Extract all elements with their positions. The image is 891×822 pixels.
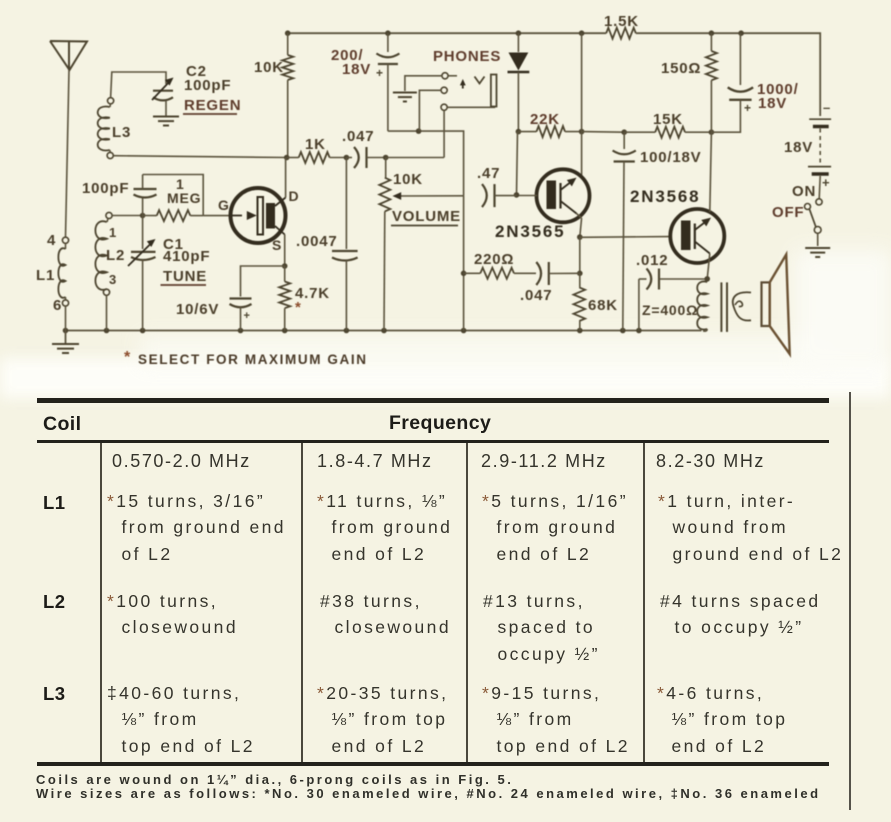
svg-text:MEG: MEG [167,190,201,206]
svg-text:10/6V: 10/6V [176,301,219,318]
svg-text:100/18V: 100/18V [640,149,701,166]
svg-text:L1: L1 [36,267,55,284]
svg-text:+: + [244,310,250,322]
svg-text:.012: .012 [636,252,668,269]
svg-text:100pF: 100pF [184,77,231,94]
svg-text:PHONES: PHONES [433,48,501,65]
svg-text:D: D [289,188,300,204]
svg-text:–: – [823,100,831,115]
svg-text:.047: .047 [342,128,374,145]
svg-text:15K: 15K [653,111,683,128]
svg-text:G: G [218,197,230,213]
svg-text:+: + [822,175,830,190]
svg-text:150Ω: 150Ω [661,60,701,77]
svg-text:REGEN: REGEN [184,97,241,114]
svg-text:100pF: 100pF [82,180,129,197]
svg-text:1: 1 [109,225,117,240]
svg-text:.047: .047 [520,287,552,304]
svg-text:68K: 68K [588,297,618,314]
svg-text:S: S [272,237,282,253]
svg-text:OFF: OFF [772,204,804,221]
svg-text:22K: 22K [530,111,560,128]
svg-text:18V: 18V [758,95,787,112]
svg-text:220Ω: 220Ω [474,251,514,268]
svg-text:4: 4 [47,232,56,249]
svg-text:410pF: 410pF [163,248,210,265]
svg-text:+: + [744,101,751,115]
svg-text:.47: .47 [477,165,500,182]
svg-text:2N3568: 2N3568 [630,187,700,206]
svg-text:.0047: .0047 [296,233,338,250]
svg-text:2N3565: 2N3565 [495,222,565,241]
svg-text:*: * [124,349,131,366]
svg-text:6: 6 [53,297,62,314]
svg-text:ON: ON [792,183,816,200]
svg-text:1.5K: 1.5K [604,13,639,30]
svg-text:10K: 10K [254,59,284,76]
svg-text:+: + [376,66,383,80]
svg-text:Z=400Ω: Z=400Ω [642,302,698,318]
svg-text:18V: 18V [784,139,813,156]
svg-text:SELECT FOR MAXIMUM GAIN: SELECT FOR MAXIMUM GAIN [138,352,368,367]
svg-text:*: * [295,299,302,316]
svg-text:3: 3 [109,272,117,287]
svg-text:TUNE: TUNE [163,268,207,285]
svg-text:VOLUME: VOLUME [392,208,461,225]
svg-text:L3: L3 [112,124,131,141]
svg-text:1K: 1K [305,136,326,153]
svg-text:18V: 18V [342,61,371,78]
svg-text:L2: L2 [106,247,125,264]
svg-text:10K: 10K [393,171,423,188]
